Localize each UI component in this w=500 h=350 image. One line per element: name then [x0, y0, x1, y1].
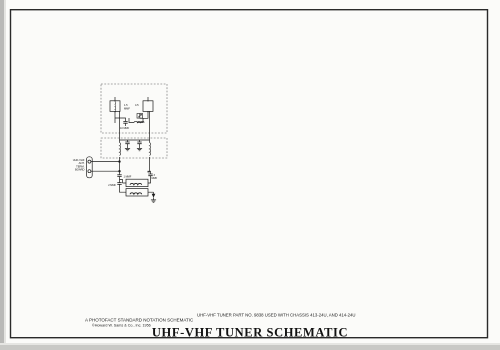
ground [137, 146, 142, 151]
coil in box 2 [130, 193, 142, 194]
svg-text:1.5: 1.5 [124, 103, 128, 107]
capacitor 10 MMF [123, 122, 127, 124]
trimmer cap [137, 114, 143, 119]
svg-text:BOARD: BOARD [75, 168, 85, 172]
wire box B top [120, 139, 150, 143]
svg-text:2 MMF: 2 MMF [108, 184, 116, 187]
junction dots ant [119, 161, 121, 163]
svg-text:MMF: MMF [152, 177, 158, 180]
UHF ant coil box 1 [126, 179, 148, 186]
capacitor 1.5 MMF b [137, 142, 141, 144]
capacitor 1.5 MMF [125, 142, 129, 144]
coil box L1 [110, 101, 120, 112]
ground [125, 146, 130, 151]
value 1.5 / 4.5 [124, 103, 139, 110]
wire box A interconnect [115, 97, 148, 123]
terminal 2 [88, 170, 91, 173]
svg-text:A PHOTOFACT STANDARD NOTATION: A PHOTOFACT STANDARD NOTATION SCHEMATIC [85, 318, 194, 323]
coil in box 1 [130, 183, 142, 184]
wire ant terminal 2 to tuner [91, 170, 120, 172]
wire right of coil boxes [148, 171, 154, 192]
svg-text:©Howard W. Sams & Co., Inc. 19: ©Howard W. Sams & Co., Inc. 1956 [92, 324, 151, 328]
svg-text:4.5: 4.5 [135, 103, 139, 107]
label UHF-VHF ANT TERM BOARD [73, 158, 85, 172]
capacitor 3 MMF [148, 174, 152, 176]
svg-text:10 MMF: 10 MMF [120, 127, 130, 130]
UHF ant coil box 2 [126, 189, 148, 196]
svg-text:UHF-VHF TUNER PART NO. 9838 US: UHF-VHF TUNER PART NO. 9838 USED WITH CH… [197, 313, 355, 318]
coil L1 [114, 102, 117, 112]
label 10 MMF [120, 127, 130, 130]
scanned page left edge shadow [0, 0, 4, 350]
coil box L2 [143, 101, 153, 112]
wire vertical rail x149.5 [148, 111, 150, 172]
wire ant terminal 1 to tuner [91, 161, 120, 163]
antenna terminal board [87, 157, 93, 178]
coil L5 [150, 143, 151, 156]
wire vertical rail x119.5 [119, 111, 121, 174]
ground below coil boxes [152, 192, 155, 197]
capacitor 2 MMF series [117, 183, 121, 185]
coil L2 [147, 101, 149, 113]
coil L3 [134, 121, 144, 122]
svg-text:UHF-VHF TUNER SCHEMATIC: UHF-VHF TUNER SCHEMATIC [152, 326, 348, 340]
scanned page bottom edge shadow [0, 345, 500, 350]
capacitor 1 MMF series [117, 175, 121, 177]
dashed box A: VHF RF coil assembly [101, 84, 167, 133]
terminal 1 [88, 160, 91, 163]
dashed box B: VHF ant input filter [101, 138, 167, 158]
wire to UHF coils [120, 177, 127, 193]
svg-text:1 MMF: 1 MMF [124, 176, 132, 179]
coil L4 [120, 143, 121, 156]
svg-text:MMF: MMF [124, 106, 130, 110]
